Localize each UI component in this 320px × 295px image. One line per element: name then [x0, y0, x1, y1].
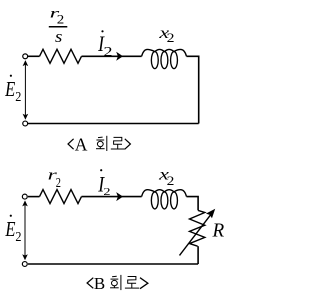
- svg-text:2: 2: [15, 229, 21, 244]
- svg-text:A: A: [75, 134, 88, 154]
- resistor r2/s: [40, 49, 82, 63]
- terminal top-left B: [22, 194, 27, 199]
- wire B: resistor to inductor (top): [82, 196, 142, 198]
- svg-text:2: 2: [167, 174, 175, 188]
- svg-text:B: B: [94, 274, 105, 293]
- wire B: bottom return to terminal: [28, 263, 198, 265]
- label I2 B: [100, 169, 102, 171]
- E2 voltage arrow A: [24, 64, 26, 115]
- wire A: terminal to resistor: [28, 55, 40, 57]
- wire A: bottom return to terminal: [28, 123, 199, 125]
- svg-text:2: 2: [15, 89, 21, 104]
- wire B: inductor to corner, down to rheostat R: [187, 197, 199, 211]
- inductor x2 A: [142, 49, 187, 56]
- svg-text:2: 2: [104, 44, 113, 59]
- wire A: inductor to right corner, down right side: [187, 56, 199, 123]
- inductor x2 B: [142, 190, 187, 197]
- wire B: rheostat R to bottom corner: [197, 246, 199, 264]
- current arrow I2 A: [116, 52, 123, 61]
- svg-text:2: 2: [56, 176, 61, 191]
- svg-text:E: E: [5, 217, 16, 241]
- svg-text:2: 2: [167, 31, 175, 45]
- variable resistor R zigzag: [190, 210, 205, 246]
- label I2 A: [101, 30, 103, 32]
- label E2 B: [10, 215, 12, 217]
- E2 voltage arrow B: [24, 205, 26, 256]
- resistor r2 B: [40, 190, 82, 204]
- svg-text:2: 2: [57, 12, 64, 26]
- fraction bar: [49, 26, 68, 28]
- svg-text:R: R: [212, 219, 225, 241]
- terminal bottom-left B: [22, 262, 27, 267]
- caption <B 회로>: [87, 278, 93, 289]
- svg-text:2: 2: [103, 186, 110, 198]
- variable resistor diagonal arrow: [180, 214, 212, 255]
- current arrow I2 B: [116, 192, 123, 201]
- wire A: resistor to inductor (top): [82, 55, 142, 57]
- svg-text:E: E: [4, 77, 15, 101]
- terminal top-left A: [23, 54, 28, 59]
- wire B: terminal to resistor: [28, 196, 40, 198]
- caption <A 회로>: [68, 139, 74, 149]
- terminal bottom-left A: [23, 121, 28, 126]
- label E2 A: [10, 75, 12, 77]
- svg-text:s: s: [55, 27, 63, 46]
